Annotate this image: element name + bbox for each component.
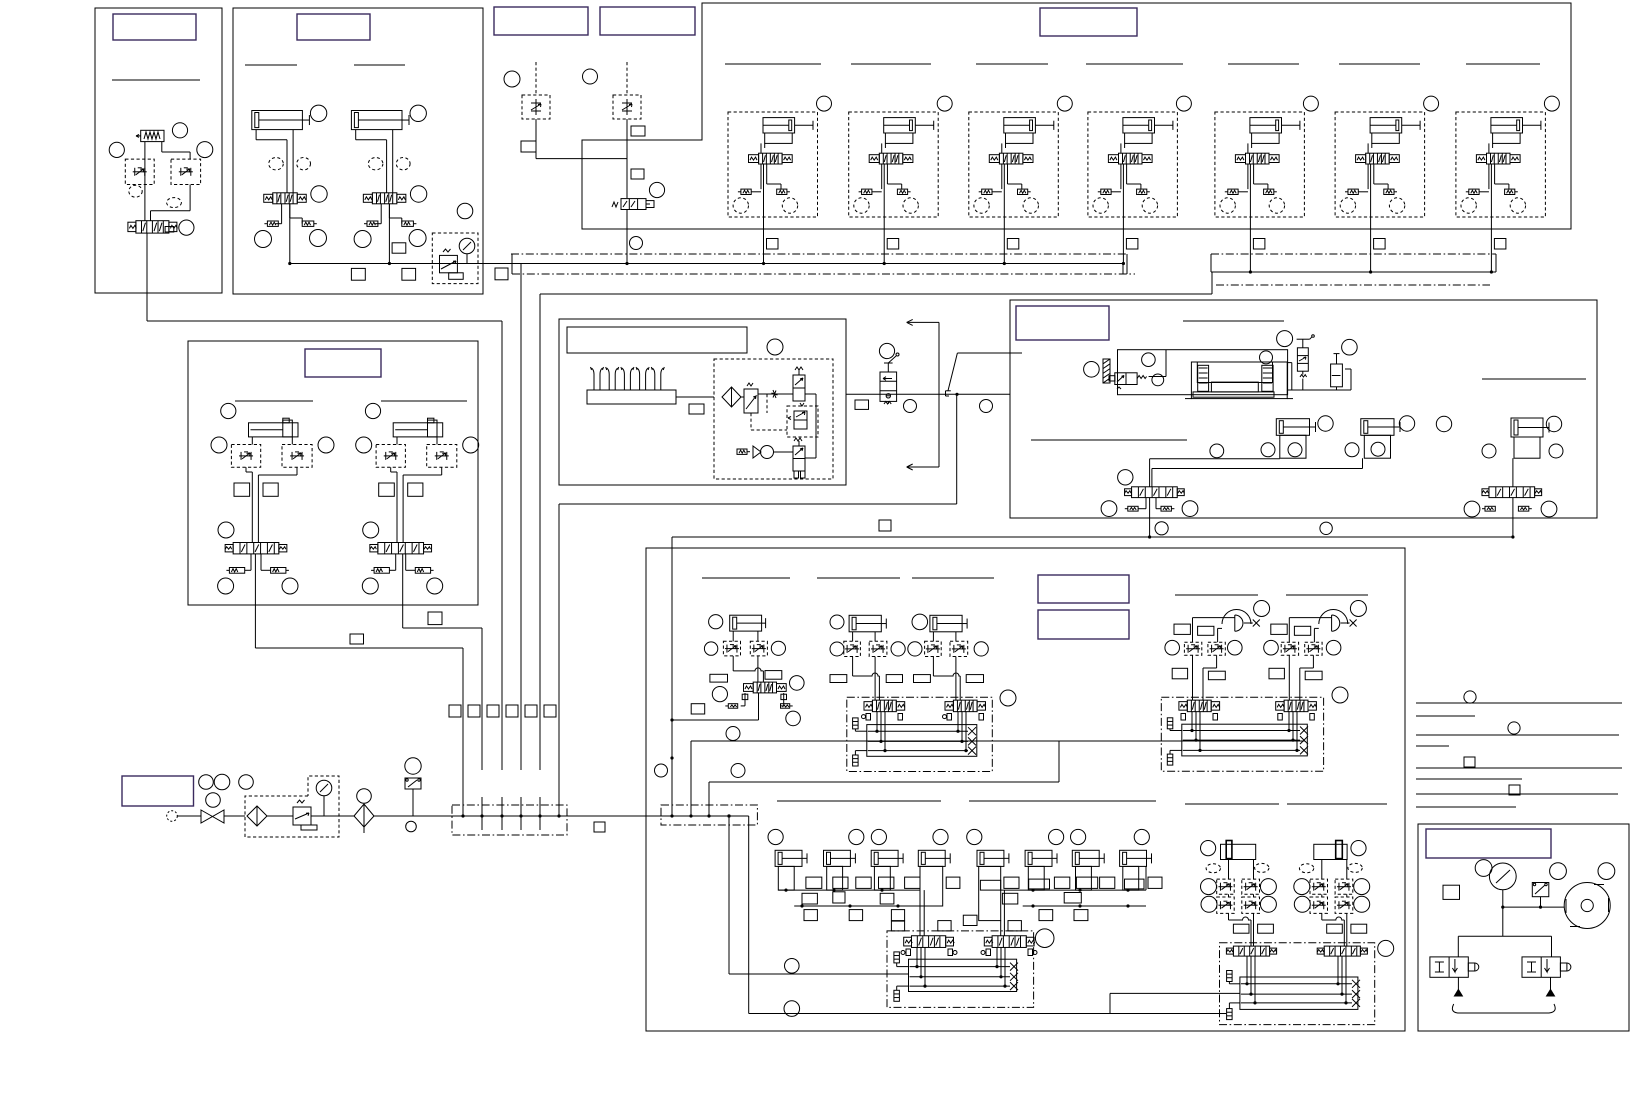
clamp station unit D7 bbox=[1456, 112, 1546, 217]
wire GA ports bbox=[733, 631, 758, 641]
inlet balloon circle 3 bbox=[239, 775, 254, 790]
balloon C1 bbox=[504, 71, 520, 87]
title block T6 bbox=[305, 349, 381, 377]
balloon A5 dashed bbox=[167, 198, 182, 208]
flow control valve A-L bbox=[125, 159, 154, 184]
balloon E1-6 bbox=[282, 578, 298, 594]
balloon F1 bbox=[767, 339, 783, 355]
bus solid right group bbox=[1211, 271, 1496, 273]
balloon GA-2 bbox=[704, 642, 717, 655]
bus dash-dot right group lower bbox=[1216, 284, 1490, 286]
cyl mount GC4 bbox=[920, 866, 943, 906]
nozzle manifold base bbox=[587, 390, 676, 404]
bus dash-dot line upper bbox=[511, 253, 1127, 255]
filter F2 bbox=[722, 387, 741, 407]
title block T4 bbox=[600, 7, 695, 35]
square GV2-a bbox=[1271, 624, 1287, 634]
riser M2-a to y537 bbox=[670, 537, 673, 816]
muffler GA-R bbox=[781, 704, 793, 709]
balloon A1 bbox=[172, 123, 187, 138]
balloon H18 bbox=[1371, 442, 1385, 456]
square G2-a bbox=[1327, 924, 1343, 933]
wire F a bbox=[741, 396, 744, 398]
wire A c bbox=[151, 185, 191, 221]
flow control valve E1-L bbox=[231, 445, 260, 468]
title block T8 bbox=[1038, 575, 1129, 603]
clamp station unit D6 bbox=[1335, 112, 1425, 217]
muffler E2-L bbox=[371, 568, 389, 574]
flow control valve G2-b bbox=[1335, 879, 1353, 894]
vacuum generator GV1 bbox=[1222, 610, 1260, 632]
wire GA exhaust bbox=[741, 693, 784, 706]
manifold Ggrip bus bbox=[1240, 977, 1360, 1009]
manifold GB dashed box bbox=[847, 697, 993, 771]
balloon G1-3 bbox=[1201, 896, 1217, 912]
balloon H11 bbox=[1182, 501, 1198, 517]
wire F dashed pilots bbox=[751, 394, 787, 430]
wire C2 down bbox=[626, 119, 628, 198]
balloon GB-1 bbox=[830, 615, 844, 629]
balloon D4 bbox=[1176, 96, 1191, 111]
flow control valve GB1-L bbox=[844, 641, 861, 656]
solenoid valve E2-V bbox=[370, 543, 432, 554]
flow control valve G1-a bbox=[1217, 879, 1235, 894]
balloon G1-4 bbox=[1260, 896, 1276, 912]
filter F1 bbox=[247, 806, 267, 826]
cyl mount GC3 bbox=[874, 866, 890, 890]
wire E2 ports bbox=[397, 437, 437, 445]
balloon B2-2 dashed bbox=[368, 158, 383, 170]
legend line 1 bbox=[1416, 702, 1622, 704]
section label underline 17 bbox=[817, 577, 900, 579]
balloon P1 bbox=[1475, 860, 1492, 877]
cylinder GC8 bbox=[1120, 850, 1152, 866]
flow control valve G2-d bbox=[1335, 897, 1353, 913]
balloon GV-5 bbox=[1326, 640, 1341, 655]
regulator R1 bbox=[293, 800, 317, 830]
wire GB1 ports bbox=[853, 632, 876, 642]
pilot valve F1 bbox=[793, 367, 805, 401]
wire GV1 mid bbox=[1193, 655, 1217, 700]
wire C-V drop bbox=[625, 210, 628, 266]
pilot valve C2 glyph bbox=[622, 99, 632, 115]
square H feed bbox=[879, 520, 891, 531]
gripper G2 bbox=[1314, 841, 1347, 860]
title block T3 bbox=[494, 7, 588, 35]
hand valve G1 bbox=[880, 353, 899, 404]
solenoid valve Ggrip-V2 bbox=[1317, 946, 1367, 956]
inlet balloon circle 1 bbox=[199, 775, 214, 790]
enclosure box G (main machine section) bbox=[646, 548, 1405, 1031]
balloon D1 bbox=[817, 96, 832, 111]
flow control valve GB2-L bbox=[925, 641, 942, 656]
shut-off valve V0 bbox=[201, 810, 224, 823]
manifold GB bus bbox=[867, 725, 977, 757]
square D5 bbox=[1253, 239, 1265, 250]
flow control valve GV1-R bbox=[1208, 642, 1225, 655]
regulator unit B dashed box bbox=[432, 233, 478, 284]
pilot valve C1 dashed box bbox=[522, 95, 550, 119]
balloon H1 bbox=[1084, 362, 1100, 378]
bus dash-dot right group upper bbox=[1211, 253, 1496, 255]
balloon GV2-1 bbox=[1350, 601, 1366, 617]
balloon GC-2 bbox=[784, 1001, 800, 1017]
feed line y782 bbox=[709, 741, 1059, 782]
square GB-c bbox=[914, 675, 931, 683]
cylinder GC5 bbox=[977, 850, 1009, 866]
flow control valve G1-d bbox=[1242, 897, 1260, 913]
muffler B2-L bbox=[364, 221, 378, 226]
balloon G1-2 bbox=[1260, 879, 1276, 895]
wire GV2 in bbox=[1289, 618, 1331, 643]
blow nozzles bbox=[591, 367, 665, 390]
balloon B1-3 dashed bbox=[297, 158, 311, 170]
wire manifold out bbox=[676, 396, 714, 398]
section label underline 6 bbox=[976, 63, 1048, 65]
balloon B2-3 dashed bbox=[396, 158, 410, 170]
wire F c bbox=[805, 394, 816, 458]
square on feed bbox=[855, 400, 869, 409]
riser line 5 (from return y294) bbox=[539, 294, 541, 770]
square G2-b bbox=[1351, 924, 1367, 933]
balloon A2 bbox=[109, 142, 124, 157]
wire E2 exhaust bbox=[389, 554, 415, 570]
balloon H19 bbox=[1436, 416, 1451, 431]
wire to lubricator bbox=[311, 815, 354, 817]
solenoid valve H-V2 bbox=[1482, 487, 1542, 498]
cyl mount GC1 bbox=[778, 866, 794, 890]
balloon M2-2 bbox=[726, 727, 740, 741]
square GV2-b bbox=[1294, 626, 1310, 635]
riser tag squares bbox=[449, 705, 556, 717]
square D4 bbox=[1126, 239, 1138, 250]
square D7 bbox=[1494, 239, 1506, 250]
square GA-b bbox=[765, 671, 782, 680]
cylinder GC2 bbox=[824, 850, 856, 866]
square E2-a bbox=[379, 483, 395, 496]
balloon GC-3 bbox=[1035, 929, 1054, 948]
balloon B1-6 bbox=[310, 230, 327, 247]
feed line y741 bbox=[691, 740, 1305, 742]
balloon H22 bbox=[1549, 444, 1563, 458]
gauge P bbox=[1489, 863, 1516, 907]
cylinder GC7 bbox=[1072, 850, 1104, 866]
gripper G1 bbox=[1221, 841, 1256, 860]
manifold GV fittings bbox=[1167, 718, 1182, 765]
wire GB out bbox=[1058, 770, 1060, 782]
wire GV1 in bbox=[1193, 618, 1235, 643]
riser line 3 (from station 1) bbox=[501, 321, 503, 770]
cyl mount H2 bbox=[1364, 435, 1390, 458]
balloon G2-1 bbox=[1294, 879, 1310, 895]
balloon H24 bbox=[1541, 501, 1557, 517]
solenoid valve GB-V1 bbox=[862, 700, 905, 720]
section label underline 15 bbox=[1031, 439, 1187, 441]
clamp station unit D3 bbox=[969, 112, 1059, 217]
flow control valve A-R bbox=[171, 159, 201, 184]
square GB-a bbox=[830, 675, 847, 683]
cylinder GC3 bbox=[871, 850, 903, 866]
section label underline 4 bbox=[725, 63, 821, 65]
balloon H4 bbox=[1260, 351, 1273, 364]
solenoid valve GA-V bbox=[742, 682, 786, 700]
pressure switch P bbox=[1532, 883, 1549, 908]
solenoid valve GV1-V bbox=[1179, 700, 1220, 720]
wire C1 to C2 bbox=[536, 119, 627, 159]
wire F b bbox=[758, 390, 793, 398]
balloon E1-4 bbox=[218, 522, 234, 538]
square G1-a bbox=[1233, 924, 1249, 933]
wire A main drop bbox=[147, 233, 502, 321]
square GV2-c bbox=[1269, 668, 1284, 679]
balloon GB-5 bbox=[908, 642, 922, 656]
balloon GV-2 bbox=[1165, 640, 1180, 655]
wire D4 drop bbox=[1122, 217, 1125, 265]
feed line y1013 bbox=[749, 1013, 1226, 1015]
balloon D3 bbox=[1057, 96, 1072, 111]
balloon GB-4 bbox=[891, 642, 905, 656]
wire D6 drop bbox=[1369, 217, 1372, 274]
square GA-a bbox=[710, 674, 728, 682]
flow control valve GA-L bbox=[723, 641, 740, 656]
pilot valve C1 glyph bbox=[531, 99, 541, 115]
muffler B1-R bbox=[302, 221, 317, 226]
pilot valve F3 bbox=[793, 438, 805, 478]
square D1 bbox=[767, 239, 779, 250]
manifold GV dashed box bbox=[1161, 697, 1323, 771]
square B below 1 bbox=[351, 268, 365, 280]
wire E1 ports bbox=[252, 437, 292, 445]
section label underline 12 bbox=[381, 400, 467, 402]
balloon G2 bbox=[904, 400, 917, 413]
balloon E2-6 bbox=[427, 578, 443, 594]
mechanism frame bbox=[1118, 350, 1288, 395]
balloon GB-3 bbox=[830, 642, 844, 656]
cylinder E1 bbox=[249, 418, 299, 437]
section label underline 24 bbox=[1287, 803, 1387, 805]
flow control valve GB2-R bbox=[950, 641, 968, 656]
balloon GB-7 bbox=[1000, 690, 1016, 706]
title block T2 bbox=[297, 14, 370, 40]
wire y537 (transfer unit supply) bbox=[672, 536, 1513, 538]
inlet balloon circle 4 bbox=[206, 793, 221, 808]
manifold GC dashed box bbox=[887, 931, 1034, 1008]
solenoid valve GC-V2 bbox=[981, 936, 1037, 956]
bus right end step bbox=[1123, 254, 1127, 274]
square right of box B bbox=[495, 268, 508, 280]
muffler H-V2-R bbox=[1518, 506, 1531, 511]
wire D2 drop bbox=[883, 217, 886, 265]
balloon E2-2 bbox=[356, 437, 372, 453]
wire GB2 mid bbox=[933, 657, 960, 701]
legend tag square 1 bbox=[1464, 757, 1475, 767]
balloon D5 bbox=[1303, 96, 1318, 111]
wire D3 drop bbox=[1003, 217, 1006, 265]
section label underline 13 bbox=[1183, 320, 1284, 322]
balloon H3 bbox=[1152, 374, 1164, 386]
balloon GA-4 bbox=[790, 676, 805, 691]
legend line 2 bbox=[1416, 715, 1475, 717]
legend line 6 bbox=[1416, 778, 1522, 780]
title block T5 bbox=[1040, 8, 1137, 36]
lubricator LU1 bbox=[354, 804, 374, 833]
balloon G2-top dashed bbox=[1299, 863, 1362, 872]
muffler E1-R bbox=[271, 568, 289, 574]
balloon GV-4 bbox=[1264, 640, 1279, 655]
section label underline 2 bbox=[245, 64, 297, 66]
balloon G1-top dashed bbox=[1206, 863, 1269, 872]
manifold GC bus bbox=[909, 959, 1019, 991]
balloon G2-3 bbox=[1294, 896, 1310, 912]
section label underline 8 bbox=[1228, 63, 1299, 65]
section label underline 18 bbox=[912, 577, 994, 579]
bus dash-dot line lower bbox=[512, 273, 1135, 275]
pressure switch PS1 bbox=[405, 778, 421, 816]
balloon E2-4 bbox=[363, 522, 379, 538]
balloon H17 bbox=[1345, 443, 1359, 457]
wire inlet bbox=[177, 815, 201, 817]
balloon G1 bbox=[879, 343, 894, 358]
wire GC-V1 up bbox=[920, 890, 924, 936]
bus solid line bbox=[290, 263, 1123, 265]
wire E2 mid bbox=[391, 467, 442, 542]
title block T10 bbox=[1426, 829, 1551, 858]
legend balloon circle 1 bbox=[1464, 691, 1476, 703]
balloon D6 bbox=[1424, 96, 1439, 111]
muffler H-V2-L bbox=[1482, 506, 1495, 511]
section label underline 9 bbox=[1339, 63, 1420, 65]
legend line 5 bbox=[1416, 767, 1622, 769]
cylinder GC4 bbox=[918, 850, 950, 866]
slide cylinder H1 bbox=[1276, 419, 1315, 436]
feed line y993 bbox=[1110, 993, 1240, 1013]
muffler H-V1-L bbox=[1125, 506, 1138, 511]
flow control valve GV2-L bbox=[1281, 642, 1298, 655]
manifold GV bus bbox=[1182, 724, 1308, 756]
balloon Ggrip-3 bbox=[1378, 940, 1394, 956]
balloon M2-3 bbox=[731, 764, 745, 778]
wire Ggrip-V drops bbox=[1245, 956, 1347, 1004]
square C-c bbox=[631, 169, 644, 179]
balloon B2-5 bbox=[354, 231, 371, 248]
valve unit F dashed box bbox=[714, 359, 833, 479]
cyl mount GC5 bbox=[979, 866, 1001, 920]
flow control valve G2-a bbox=[1310, 879, 1328, 894]
square P-a bbox=[1443, 885, 1460, 899]
balloon H13 bbox=[1320, 522, 1332, 534]
wire D5 drop bbox=[1249, 217, 1252, 274]
square B below 2 bbox=[402, 268, 416, 280]
square D3 bbox=[1007, 239, 1019, 250]
square E2-b bbox=[408, 483, 423, 496]
balloon H15 bbox=[1261, 443, 1275, 457]
balloon C4 bbox=[630, 237, 643, 250]
solenoid valve E1-V bbox=[225, 543, 287, 554]
clamp station unit D5 bbox=[1215, 112, 1305, 217]
wire lubricator-manifold bbox=[374, 815, 452, 817]
square G1-b bbox=[1258, 924, 1274, 933]
manifold M1 stub lines bbox=[482, 797, 540, 830]
drain P1 bbox=[1454, 977, 1462, 996]
pilot valve H2 bbox=[1297, 335, 1315, 377]
balloon E2-5 bbox=[362, 578, 378, 594]
legend tag square 2 bbox=[1509, 785, 1520, 795]
feed line y974 bbox=[729, 973, 909, 975]
inlet balloon circle 2 bbox=[214, 774, 230, 790]
riser M2-e to y1013 bbox=[748, 816, 750, 1014]
regulator B bbox=[440, 249, 464, 279]
rodless slide unit bbox=[1185, 362, 1293, 399]
wire H mech bbox=[1288, 363, 1351, 390]
square GC tags bbox=[802, 877, 1162, 931]
balloon H7 bbox=[1318, 416, 1333, 431]
cylinder B1 bbox=[252, 111, 310, 130]
enclosure box F (air blow unit) bbox=[559, 319, 846, 485]
signal bracket arrows bbox=[907, 319, 939, 470]
wire GV-V drops bbox=[1190, 712, 1298, 752]
balloon GV-3 bbox=[1228, 640, 1243, 655]
enclosure box P (vacuum pump unit) bbox=[1418, 824, 1629, 1031]
balloon GB-6 bbox=[974, 642, 988, 656]
square below E 1 bbox=[350, 634, 364, 644]
supply junction dots bbox=[461, 814, 730, 817]
wire B1 ports bbox=[256, 130, 293, 193]
section label underline 22 bbox=[969, 800, 1156, 802]
clamp station unit D4 bbox=[1088, 112, 1178, 217]
slide cylinder H2 bbox=[1361, 419, 1400, 436]
square GV1-c bbox=[1172, 668, 1187, 679]
manual lever switch bbox=[946, 353, 1023, 396]
solenoid valve A-V bbox=[128, 221, 177, 233]
wire E1 drop bbox=[255, 554, 463, 648]
wire H-V2 drop bbox=[1511, 498, 1514, 539]
balloon C2 bbox=[583, 69, 598, 84]
supply manifold M1 bbox=[452, 805, 567, 835]
section label underline 19 bbox=[1175, 594, 1258, 596]
wire GB1 mid bbox=[853, 657, 880, 701]
square C-a bbox=[631, 126, 645, 136]
balloon C3 bbox=[649, 182, 664, 197]
balloon H2 bbox=[1142, 353, 1156, 367]
balloon A3 bbox=[197, 142, 213, 158]
wire y504 (blow line) bbox=[559, 394, 957, 504]
balloon GA-5 bbox=[712, 687, 727, 702]
cylinder GC1 bbox=[775, 850, 807, 866]
square C-b bbox=[521, 141, 536, 152]
lever valve H1 bbox=[1109, 350, 1166, 395]
square GV1-a bbox=[1174, 624, 1190, 634]
muffler E2-R bbox=[415, 568, 433, 574]
enclosure box E (station 3) bbox=[188, 341, 478, 605]
wire GB2 ports bbox=[933, 632, 956, 642]
flow control valve GA-R bbox=[750, 641, 767, 656]
wire B2 exhaust bbox=[375, 204, 402, 224]
title block F bbox=[567, 327, 747, 353]
balloon B7 bbox=[457, 203, 473, 219]
vacuum valve P1 bbox=[1430, 957, 1479, 977]
balloon H12 bbox=[1155, 522, 1168, 535]
square GA-c bbox=[691, 704, 705, 714]
wire filter-regulator bbox=[267, 815, 293, 817]
blower P bbox=[1564, 883, 1610, 929]
cyl mount H1 bbox=[1280, 435, 1306, 458]
manifold GC fittings bbox=[894, 952, 909, 1001]
wire G1 columns bbox=[1229, 860, 1254, 947]
section label underline 10 bbox=[1466, 63, 1540, 65]
balloon pressure switch bbox=[405, 758, 421, 774]
solenoid valve C-V bbox=[612, 199, 654, 210]
legend line 8 bbox=[1416, 806, 1516, 808]
